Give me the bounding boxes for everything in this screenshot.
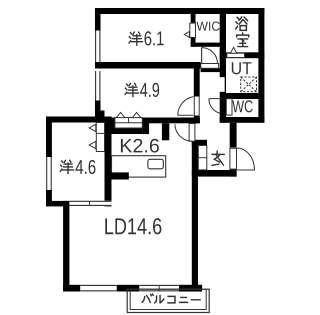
wall: bath bottom / UT top bbox=[220, 52, 265, 58]
wall: entry right (above door gap) bbox=[230, 123, 237, 148]
label: WIC bbox=[197, 22, 220, 31]
wall: bar below kitchen sliding door bbox=[111, 128, 142, 134]
bedroom 6.1 entrance door (nook): threshold + leaf + arc bbox=[201, 48, 219, 69]
kitchen counter bbox=[112, 156, 166, 177]
wall: bedroom 6.1 / WIC divider bbox=[191, 14, 196, 47]
shoe cabinet bbox=[198, 146, 207, 170]
wall: bedroom 4.9 left below window bbox=[95, 101, 101, 117]
wall: bedroom 6.1 left (above window) bbox=[95, 14, 101, 31]
wall: outer top bbox=[95, 8, 264, 14]
wall: LD right bbox=[192, 141, 198, 292]
wall: bedroom 4.6 bottom bbox=[46, 201, 69, 207]
wall: stub right of kitchen sliding door bbox=[142, 118, 149, 135]
wall: UT / WC divider bbox=[226, 93, 258, 99]
sliding door: bedroom 4.6 to LD bbox=[69, 201, 111, 206]
wall: LD bottom bbox=[63, 285, 202, 292]
wall: corner block left of sliding doors bbox=[95, 111, 105, 118]
window: bedroom 6.1 left wall bbox=[95, 31, 101, 63]
label: genkan 玄 bbox=[212, 151, 224, 165]
wall: bedroom 4.6 top bbox=[46, 117, 112, 123]
wall: hall stub left of LD door bbox=[162, 123, 169, 140]
label: balcony バルコニー bbox=[142, 294, 200, 303]
washing machine symbol bbox=[241, 77, 257, 92]
bath door: white bar + triangle mark bbox=[227, 47, 245, 57]
window: bedroom 4.6 left wall bbox=[46, 157, 52, 190]
label: kitchen K2.6 bbox=[121, 139, 159, 153]
wall: LD left bbox=[63, 201, 69, 292]
bedroom 4.9 door: gap + leaf + arc bbox=[178, 97, 200, 116]
wall: bedroom 6.1 / bedroom 4.9 divider bbox=[95, 62, 201, 69]
wall: kitchen bottom-left stub bbox=[105, 172, 129, 179]
wall: bedroom 4.9 right (below door) bbox=[194, 115, 200, 123]
label: living dining LD14.6 bbox=[105, 218, 161, 234]
WIC door leaf + triangle bbox=[184, 23, 195, 37]
wall: bedroom 4.9 right (above door) bbox=[194, 69, 200, 97]
closet in bedroom 4.6 bbox=[96, 123, 104, 152]
closet door triangles bbox=[89, 124, 96, 149]
balcony outline bbox=[127, 289, 209, 312]
wall: genkan top stub bbox=[192, 140, 207, 146]
wall: WC bottom bbox=[220, 117, 265, 123]
wall: outer right (bath/UT/WC column) bbox=[258, 8, 264, 123]
wall: closet back / kitchen left wall bbox=[105, 117, 112, 207]
wall: bedroom 4.9 / kitchen divider bbox=[142, 118, 200, 124]
hall/LD door: leaf + arc bbox=[175, 124, 195, 142]
wall: WIC/bath divider + corridor right wall bbox=[220, 8, 226, 123]
label: UT bbox=[232, 62, 252, 74]
WC door leaf + swing arc bbox=[209, 99, 232, 116]
sink bbox=[148, 159, 163, 169]
wall: under nook doorway bbox=[201, 68, 220, 72]
label: bedroom 4.9 bbox=[125, 83, 159, 97]
label: bedroom 6.1 bbox=[129, 31, 164, 45]
wall: sliver left of kitchen sliding door bbox=[112, 118, 115, 129]
entrance door: leaf + swing arc bbox=[230, 148, 255, 170]
wall: genkan bottom bbox=[192, 170, 237, 177]
label: bath 浴室 bbox=[236, 17, 249, 47]
wall: entry right (below door gap) bbox=[230, 169, 237, 177]
wall: bedroom 4.6 left (below window) bbox=[46, 190, 52, 206]
UT door: white slot in wall bbox=[219, 77, 224, 92]
label: bedroom 4.6 bbox=[60, 160, 95, 174]
window: LD bottom wall bbox=[80, 285, 117, 292]
kitchen sliding door triangles bbox=[116, 112, 140, 117]
label: WC bbox=[232, 100, 252, 112]
window: balcony sliding door bbox=[139, 285, 179, 292]
wall: bedroom 4.6 left (above window) bbox=[46, 117, 52, 158]
wall: WIC bottom bbox=[191, 43, 221, 47]
kitchen sliding door box bbox=[115, 118, 142, 129]
window: bedroom 4.9 left wall bbox=[95, 71, 101, 101]
